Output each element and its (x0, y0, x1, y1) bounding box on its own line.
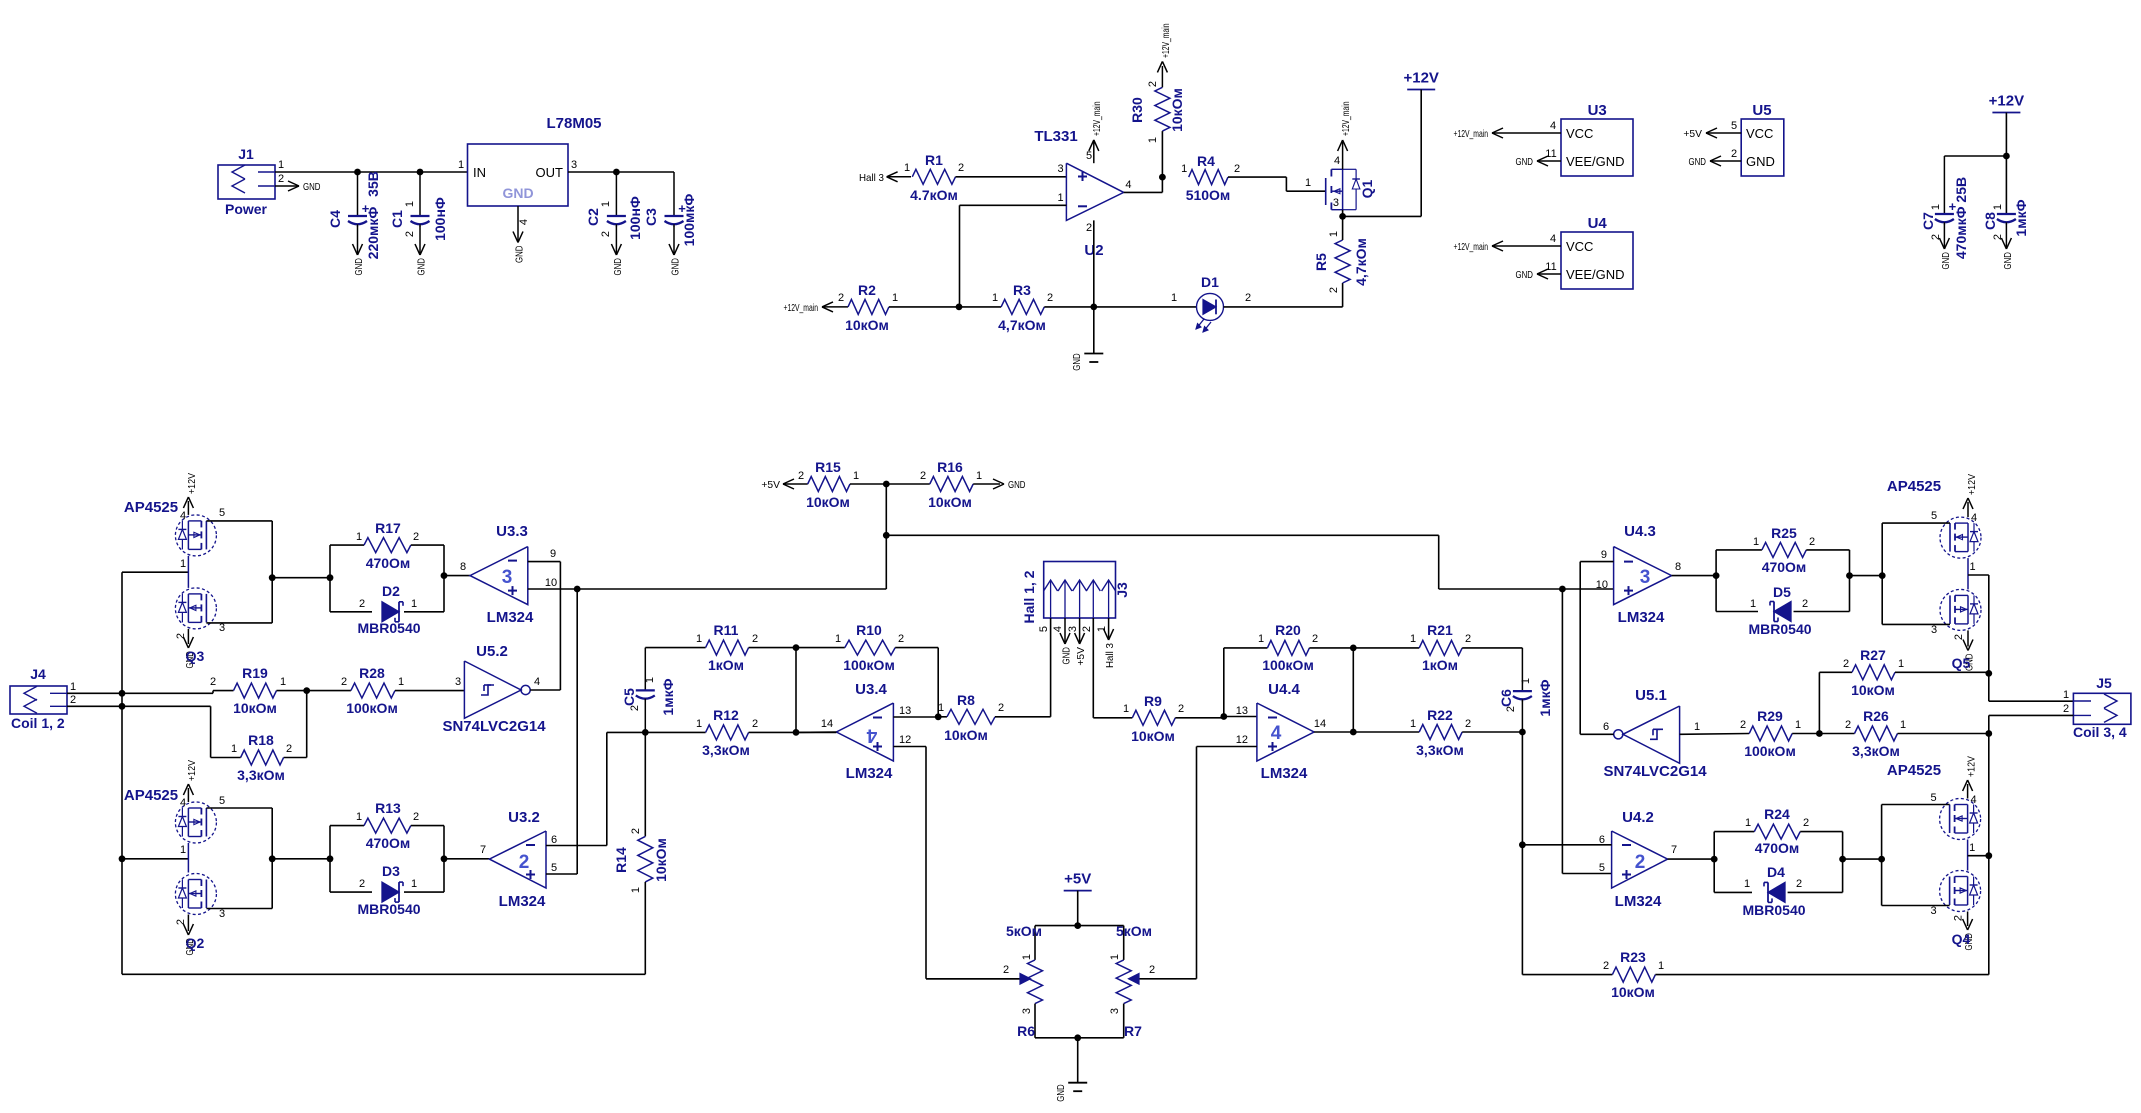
wire trimmer bottom rail (1035, 1034, 1124, 1082)
svg-text:1: 1 (1900, 719, 1906, 731)
svg-text:1: 1 (1745, 817, 1751, 829)
wire regulator OUT to C2 C3 (568, 169, 674, 176)
svg-text:Q4: Q4 (1952, 931, 1971, 947)
svg-text:U3.4: U3.4 (855, 681, 887, 698)
svg-text:C5: C5 (621, 688, 637, 706)
svg-text:GND: GND (2002, 252, 2014, 270)
resistor R22 3,3кОм (1353, 707, 1526, 758)
svg-text:2: 2 (1178, 703, 1184, 715)
svg-text:VEE/GND: VEE/GND (1566, 267, 1625, 282)
svg-text:2: 2 (838, 292, 844, 304)
svg-text:J4: J4 (30, 666, 46, 682)
svg-text:2: 2 (413, 811, 419, 823)
svg-text:1мкФ: 1мкФ (660, 678, 676, 715)
op-amp U4.4 LM324 (1236, 681, 1326, 782)
wire R3 to D1 (1044, 306, 1196, 308)
svg-text:1: 1 (1171, 292, 1177, 304)
svg-text:3,3кОм: 3,3кОм (1416, 742, 1464, 758)
svg-text:Q5: Q5 (1952, 655, 1971, 671)
svg-text:J1: J1 (238, 146, 254, 162)
wire U3.4 output pin14 (796, 731, 836, 733)
svg-text:470Ом: 470Ом (366, 555, 411, 571)
wire U3.4 pin12 to trimmer R6 (893, 747, 1020, 979)
svg-text:6: 6 (1603, 721, 1609, 733)
svg-text:R16: R16 (937, 459, 963, 475)
svg-text:2: 2 (920, 470, 926, 482)
ground GND (C3) (669, 226, 682, 276)
wire R13/D3 to U3.2 output (441, 826, 490, 893)
capacitor C8 1мкФ (1982, 199, 2029, 240)
svg-text:5: 5 (1931, 510, 1937, 522)
svg-text:1: 1 (180, 558, 186, 570)
voltage regulator U1 L78M05 (458, 115, 602, 225)
svg-text:R11: R11 (714, 622, 739, 638)
svg-text:2: 2 (1086, 222, 1092, 234)
svg-text:AP4525: AP4525 (1887, 762, 1941, 779)
power flag +12V (C7/C8) (1989, 93, 2024, 215)
svg-text:MBR0540: MBR0540 (1742, 902, 1805, 918)
wire U4.4 pin12 to trimmer R7 (1197, 747, 1257, 979)
wire U4.2 pin6 (1522, 844, 1611, 846)
svg-text:R3: R3 (1013, 282, 1031, 298)
resistor R29 100кОм (1740, 708, 1855, 759)
svg-text:2: 2 (958, 162, 964, 174)
svg-text:4,7кОм: 4,7кОм (998, 317, 1046, 333)
svg-text:Hall 3: Hall 3 (859, 172, 884, 184)
svg-text:GND: GND (514, 245, 526, 263)
svg-text:R18: R18 (248, 732, 274, 748)
svg-text:1: 1 (278, 159, 284, 171)
svg-text:2: 2 (278, 173, 284, 185)
svg-text:8: 8 (1675, 561, 1681, 573)
wire U3.2 pin5 (546, 589, 577, 874)
resistor R4 510Ом (1181, 153, 1240, 203)
svg-text:J3: J3 (1114, 582, 1130, 598)
wire J5 pin2 (1989, 715, 2074, 733)
resistor R30 10кОм (vertical) (1129, 23, 1185, 177)
svg-text:GND: GND (303, 181, 321, 193)
svg-text:+12V_main: +12V_main (1160, 23, 1172, 58)
svg-text:1: 1 (180, 844, 186, 856)
diode D3 MBR0540 (330, 863, 444, 917)
svg-text:4: 4 (1550, 120, 1556, 132)
transistor pair Q3 AP4525 (124, 473, 225, 669)
svg-text:1: 1 (696, 633, 702, 645)
svg-text:220мкФ: 220мкФ (365, 207, 381, 260)
svg-text:1: 1 (835, 633, 841, 645)
svg-text:100нФ: 100нФ (627, 196, 643, 240)
inverter U5.2 SN74LVC2G14 (442, 643, 546, 735)
svg-text:C2: C2 (585, 208, 601, 226)
svg-text:+12V: +12V (186, 473, 198, 494)
svg-text:6: 6 (551, 834, 557, 846)
svg-text:R2: R2 (858, 282, 876, 298)
svg-text:3: 3 (455, 676, 461, 688)
svg-text:VCC: VCC (1746, 126, 1773, 141)
svg-text:100кОм: 100кОм (843, 657, 895, 673)
svg-text:1мкФ: 1мкФ (2013, 199, 2029, 236)
wire divider to U4.3 pin10 (long bus) (886, 535, 1613, 592)
wire R2 to R3 junction (889, 304, 1001, 311)
svg-text:3: 3 (1021, 1008, 1033, 1014)
svg-text:2: 2 (1603, 960, 1609, 972)
resistor R13 470Ом (327, 800, 444, 892)
svg-text:R24: R24 (1764, 806, 1790, 822)
svg-text:1: 1 (1096, 626, 1108, 632)
svg-text:1: 1 (892, 292, 898, 304)
svg-text:AP4525: AP4525 (124, 787, 178, 804)
svg-text:R20: R20 (1275, 622, 1301, 638)
svg-text:4: 4 (534, 676, 540, 688)
svg-text:C8: C8 (1982, 212, 1998, 230)
svg-text:LM324: LM324 (1261, 765, 1308, 782)
resistor R21 1кОм (1353, 622, 1522, 691)
svg-text:+5V: +5V (761, 479, 780, 491)
inverter U5.1 SN74LVC2G14 (mirrored) (1603, 687, 1707, 780)
svg-text:U3: U3 (1588, 102, 1607, 119)
svg-text:D2: D2 (382, 583, 400, 599)
svg-text:1: 1 (904, 162, 910, 174)
svg-text:10кОм: 10кОм (1851, 682, 1895, 698)
svg-text:1: 1 (1123, 703, 1129, 715)
svg-text:5: 5 (1038, 626, 1050, 632)
svg-text:2: 2 (1953, 915, 1965, 921)
resistor R16 10кОм (920, 459, 1026, 510)
net flag +5V (J3 pin3) (1075, 618, 1088, 666)
wire U5.1 output (1580, 733, 1614, 735)
capacitor C5 1мкФ (621, 648, 676, 733)
svg-text:1: 1 (1258, 633, 1264, 645)
svg-text:1: 1 (1750, 598, 1756, 610)
svg-text:R14: R14 (613, 847, 629, 873)
svg-text:D4: D4 (1767, 864, 1785, 880)
svg-text:3: 3 (1109, 1008, 1121, 1014)
svg-text:U4.2: U4.2 (1622, 809, 1654, 826)
svg-text:R21: R21 (1427, 622, 1453, 638)
svg-text:1: 1 (696, 718, 702, 730)
svg-text:10кОм: 10кОм (845, 317, 889, 333)
svg-text:C3: C3 (643, 208, 659, 226)
resistor R20 100кОм (1224, 622, 1357, 717)
resistor R11 1кОм (645, 622, 799, 673)
svg-text:R29: R29 (1757, 708, 1783, 724)
net flag GND (J1 pin2) (275, 181, 321, 193)
svg-text:1: 1 (1694, 721, 1700, 733)
wire +12V to C7 (1944, 156, 2006, 214)
svg-text:R8: R8 (957, 692, 975, 708)
svg-text:2: 2 (404, 231, 416, 237)
svg-text:4: 4 (1334, 155, 1340, 167)
net flag Hall 3 (R1) (859, 172, 911, 184)
svg-text:1: 1 (1658, 960, 1664, 972)
svg-text:100нФ: 100нФ (432, 197, 448, 241)
svg-text:2: 2 (519, 852, 530, 873)
svg-text:R7: R7 (1124, 1023, 1142, 1039)
svg-text:Q3: Q3 (186, 648, 205, 664)
wire R24/D4 to Q4 gates (1839, 832, 1885, 893)
svg-text:2: 2 (70, 694, 76, 706)
svg-text:R17: R17 (375, 520, 401, 536)
trimmer R6 5кОм (926, 871, 1124, 1039)
svg-text:1: 1 (1410, 718, 1416, 730)
svg-text:C6: C6 (1498, 689, 1514, 707)
svg-text:2: 2 (1843, 658, 1849, 670)
IC power pins U4 (LM324) (1454, 215, 1634, 289)
svg-text:2: 2 (798, 470, 804, 482)
wire U3.3 pin10 to divider (528, 484, 890, 592)
svg-text:+12V_main: +12V_main (784, 302, 819, 314)
svg-text:10: 10 (1596, 579, 1608, 591)
svg-text:2: 2 (898, 633, 904, 645)
svg-text:GND: GND (353, 258, 365, 276)
svg-text:2: 2 (210, 676, 216, 688)
svg-text:1: 1 (1305, 177, 1311, 189)
svg-text:+12V: +12V (1966, 474, 1978, 495)
svg-text:10кОм: 10кОм (1611, 984, 1655, 1000)
svg-text:1: 1 (938, 702, 944, 714)
svg-text:U3.3: U3.3 (496, 523, 528, 540)
svg-text:+12V: +12V (1403, 70, 1438, 87)
svg-text:+12V: +12V (186, 760, 198, 781)
wire U3.2 pin6 to C5/R12 node (546, 732, 645, 845)
svg-text:10кОм: 10кОм (1169, 88, 1185, 132)
svg-text:C4: C4 (327, 210, 343, 228)
svg-text:13: 13 (899, 705, 911, 717)
net flag +12V_main (U2 pin5) (1089, 101, 1103, 163)
svg-text:1: 1 (280, 676, 286, 688)
svg-text:R28: R28 (359, 665, 385, 681)
svg-text:GND: GND (670, 258, 682, 276)
svg-text:1: 1 (600, 201, 612, 207)
resistor R2 10кОм (838, 282, 898, 333)
svg-text:3: 3 (219, 622, 225, 634)
ground GND (U1) (513, 206, 526, 263)
svg-text:D5: D5 (1773, 584, 1791, 600)
svg-text:5: 5 (219, 507, 225, 519)
svg-text:GND: GND (1516, 269, 1534, 281)
svg-text:D3: D3 (382, 863, 400, 879)
svg-text:12: 12 (899, 734, 911, 746)
svg-text:3: 3 (1931, 905, 1937, 917)
svg-text:GND: GND (1061, 647, 1073, 665)
svg-text:1: 1 (644, 677, 656, 683)
svg-text:1: 1 (1109, 954, 1121, 960)
svg-text:1: 1 (1181, 163, 1187, 175)
svg-text:J5: J5 (2096, 675, 2112, 691)
resistor R15 10кОм (761, 459, 929, 510)
svg-text:Coil 3, 4: Coil 3, 4 (2073, 724, 2127, 740)
resistor R14 10кОм (vertical) (613, 732, 669, 974)
svg-text:470Ом: 470Ом (1755, 840, 1800, 856)
wire U4.3 output to R25/D5 (1672, 572, 1720, 579)
svg-text:R22: R22 (1427, 707, 1453, 723)
IC power pins U5 (SN74LVC2G14) (1683, 102, 1783, 176)
svg-text:3: 3 (1640, 567, 1651, 588)
svg-text:1: 1 (1970, 561, 1976, 573)
svg-text:LM324: LM324 (1615, 893, 1662, 910)
svg-text:1: 1 (1520, 678, 1532, 684)
svg-text:Hall 1, 2: Hall 1, 2 (1021, 570, 1037, 623)
svg-text:GND: GND (1516, 156, 1534, 168)
svg-text:1: 1 (1021, 954, 1033, 960)
transistor Q1 (MOSFET) (1326, 155, 1375, 210)
svg-text:AP4525: AP4525 (1887, 478, 1941, 495)
diode D2 MBR0540 (330, 583, 444, 636)
svg-text:2: 2 (1731, 148, 1737, 160)
svg-text:3: 3 (219, 908, 225, 920)
svg-text:2: 2 (359, 878, 365, 890)
ground GND (C2) (611, 226, 624, 276)
capacitor C2 100нФ (585, 172, 643, 240)
connector J3 Hall 1, 2 (1021, 562, 1130, 633)
capacitor C3 100мкФ (643, 172, 697, 246)
diode D4 MBR0540 (1714, 864, 1842, 918)
wire U2 pin1 to R2/R3 node (960, 205, 1067, 307)
svg-text:U3.2: U3.2 (508, 809, 540, 826)
svg-text:1: 1 (1058, 192, 1064, 204)
svg-text:1: 1 (458, 159, 464, 171)
resistor R8 10кОм (938, 692, 1051, 743)
transistor pair Q2 AP4525 (124, 760, 225, 956)
svg-text:+5V: +5V (1683, 128, 1702, 140)
svg-text:2: 2 (286, 743, 292, 755)
svg-text:+5V: +5V (1075, 647, 1087, 666)
svg-text:+12V: +12V (1989, 93, 2024, 110)
svg-text:LM324: LM324 (1618, 609, 1665, 626)
svg-text:2: 2 (1312, 633, 1318, 645)
svg-text:1: 1 (398, 676, 404, 688)
svg-text:1: 1 (356, 811, 362, 823)
svg-text:2: 2 (1796, 878, 1802, 890)
svg-text:Q1: Q1 (1359, 179, 1375, 198)
svg-text:1: 1 (231, 743, 237, 755)
svg-text:5: 5 (1731, 120, 1737, 132)
wire J3 pin5 to R8 (1050, 618, 1052, 717)
svg-text:1: 1 (2063, 689, 2069, 701)
capacitor C6 1мкФ (1498, 678, 1553, 732)
wire phase 1 (Q3 pair) (122, 558, 188, 572)
comparator U2 TL331 (1034, 128, 1131, 259)
svg-text:1: 1 (1328, 231, 1340, 237)
resistor R5 4,7кОм (vertical) (1313, 216, 1369, 293)
op-amp U3.3 LM324 (460, 523, 557, 626)
svg-text:13: 13 (1236, 705, 1248, 717)
svg-text:14: 14 (821, 718, 833, 730)
svg-text:R6: R6 (1017, 1023, 1035, 1039)
svg-text:2: 2 (1149, 964, 1155, 976)
svg-text:470Ом: 470Ом (1762, 559, 1807, 575)
resistor R24 470Ом (1714, 806, 1842, 892)
svg-text:1мкФ: 1мкФ (1537, 679, 1553, 716)
resistor R10 100кОм (796, 622, 938, 717)
wire U3.4 pin13 (893, 713, 941, 720)
svg-text:1: 1 (411, 878, 417, 890)
wire D1 to R5 (1224, 283, 1343, 307)
svg-text:3,3кОм: 3,3кОм (237, 767, 285, 783)
transistor pair Q4 AP4525 (1887, 756, 1981, 951)
svg-text:2: 2 (752, 633, 758, 645)
svg-text:100кОм: 100кОм (1262, 657, 1314, 673)
svg-text:1: 1 (1147, 137, 1159, 143)
svg-text:2: 2 (1234, 163, 1240, 175)
svg-text:C1: C1 (389, 210, 405, 228)
svg-text:100кОм: 100кОм (346, 700, 398, 716)
svg-text:U4.4: U4.4 (1268, 681, 1300, 698)
svg-text:TL331: TL331 (1034, 128, 1077, 145)
wire U2 pin2 down to ground (1090, 220, 1097, 353)
capacitor C4 220мкФ 35В (327, 171, 381, 259)
svg-text:4: 4 (1052, 626, 1064, 632)
svg-text:9: 9 (550, 548, 556, 560)
svg-text:12: 12 (1236, 734, 1248, 746)
svg-text:2: 2 (1328, 287, 1340, 293)
svg-text:7: 7 (1671, 844, 1677, 856)
wire R25/D5 to Q5 gates (1846, 550, 1886, 612)
svg-text:1: 1 (853, 470, 859, 482)
svg-text:R9: R9 (1144, 693, 1162, 709)
svg-text:4: 4 (1125, 179, 1131, 191)
svg-text:D1: D1 (1201, 274, 1219, 290)
svg-text:3: 3 (571, 159, 577, 171)
wire Q5 gates (1882, 523, 1950, 624)
svg-text:L78M05: L78M05 (546, 115, 601, 132)
svg-text:4: 4 (1550, 233, 1556, 245)
trimmer R7 5кОм (1109, 923, 1197, 1039)
svg-text:14: 14 (1314, 718, 1326, 730)
svg-text:4: 4 (1971, 512, 1977, 524)
svg-text:5кОм: 5кОм (1116, 923, 1152, 939)
svg-text:R30: R30 (1129, 97, 1145, 123)
svg-text:GND: GND (1689, 156, 1707, 168)
svg-text:GND: GND (1055, 1084, 1067, 1102)
svg-text:4: 4 (866, 725, 877, 746)
svg-text:Hall 3: Hall 3 (1104, 643, 1116, 668)
svg-text:3: 3 (1067, 626, 1079, 632)
svg-text:10кОм: 10кОм (233, 700, 277, 716)
svg-text:10кОм: 10кОм (653, 838, 669, 882)
svg-text:2: 2 (1465, 718, 1471, 730)
power flag +12V (Q1) (1403, 70, 1438, 217)
svg-text:470Ом: 470Ом (366, 835, 411, 851)
ground GND (C8) (2001, 224, 2014, 270)
net flag +12V_main (Q1 drain) (1338, 101, 1352, 169)
svg-text:R25: R25 (1771, 525, 1797, 541)
diode D5 MBR0540 (1716, 584, 1849, 637)
svg-text:1: 1 (992, 292, 998, 304)
resistor R26 3,3кОм (1845, 708, 1992, 759)
svg-text:5: 5 (219, 795, 225, 807)
svg-text:R1: R1 (925, 152, 943, 168)
svg-text:9: 9 (1601, 549, 1607, 561)
capacitor C1 100нФ (389, 172, 448, 241)
wire U4.2 +input from bus (1562, 589, 1611, 874)
svg-text:C7: C7 (1920, 212, 1936, 230)
LED D1 (1171, 274, 1251, 332)
wire Q1 source to +12V and R5 (1339, 210, 1421, 220)
svg-text:1: 1 (1969, 842, 1975, 854)
svg-text:1: 1 (411, 598, 417, 610)
transistor pair Q5 AP4525 (1887, 474, 1981, 671)
wire Q2 gates (206, 808, 330, 909)
svg-text:R13: R13 (375, 800, 401, 816)
svg-text:2: 2 (359, 598, 365, 610)
svg-text:2: 2 (1803, 817, 1809, 829)
svg-text:10кОм: 10кОм (806, 494, 850, 510)
svg-text:4: 4 (180, 510, 186, 522)
svg-text:GND: GND (612, 258, 624, 276)
svg-text:R19: R19 (242, 665, 268, 681)
svg-text:SN74LVC2G14: SN74LVC2G14 (1603, 763, 1707, 780)
